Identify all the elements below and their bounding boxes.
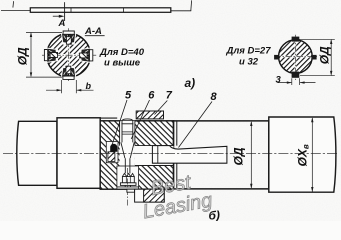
svg-text:Для D=40: Для D=40: [99, 47, 145, 58]
wire: white axis channels: [46, 54, 92, 56]
right shaft segment 2: [269, 117, 336, 192]
dimension D-left of section: [26, 32, 62, 77]
svg-text:ØД: ØД: [16, 47, 30, 65]
dimension 3 (key width): [278, 78, 316, 85]
wire: section arrow: [53, 15, 62, 17]
node right end tick: [190, 0, 193, 11]
svg-text:Для D=27: Для D=27: [226, 46, 272, 57]
key small S: [292, 72, 300, 78]
wire: bolt centerline: [127, 168, 129, 206]
svg-text:и выше: и выше: [104, 58, 141, 69]
pin key insert (hatched): [108, 152, 115, 162]
dimension D Xb (big end diameter): [311, 118, 313, 192]
svg-text:ØД: ØД: [317, 46, 331, 64]
bottom boss under sleeve: [127, 189, 135, 192]
pin (black section): [110, 144, 117, 152]
svg-text:и 32: и 32: [239, 56, 259, 67]
key W: [44, 47, 58, 62]
bolt 6 (vertical): [120, 119, 135, 173]
svg-text:8: 8: [211, 91, 218, 103]
left shaft main segment: [57, 118, 100, 189]
node shaft section circle: [47, 33, 91, 77]
dimension D right circle: [299, 39, 335, 75]
node small shaft section circle: [279, 40, 313, 74]
wire: bar divisions: [71, 8, 124, 13]
svg-text:ØД: ØД: [232, 147, 246, 165]
wire: centerlines of circle: [42, 54, 98, 56]
nut pocket (white): [117, 166, 139, 189]
svg-text:6: 6: [148, 90, 155, 102]
coupling sleeve (hatched): [100, 121, 173, 189]
node left end tick: [12, 1, 15, 7]
svg-text:5: 5: [125, 90, 132, 102]
wire: seg2 top edge overshoot into sleeve: [100, 117, 117, 119]
wire: centerline of top bar: [1, 10, 191, 12]
svg-text:А: А: [58, 18, 66, 29]
svg-text:7: 7: [166, 90, 173, 102]
key 8 (gib wedge key): [152, 146, 227, 164]
cap 7 on sleeve: [136, 111, 163, 119]
wedge bar outline: [30, 8, 171, 13]
key S: [61, 66, 76, 80]
wire: centerlines small circle: [275, 56, 319, 58]
svg-text:b: b: [86, 81, 92, 91]
key E: [79, 48, 93, 63]
right shaft segment 1: [174, 121, 269, 189]
svg-text:а): а): [185, 76, 196, 90]
svg-text:А-А: А-А: [84, 26, 102, 37]
key slot (white): [135, 146, 174, 166]
key small N: [292, 37, 300, 42]
dimension b under section: [46, 80, 94, 93]
nut + spring washer of bolt: [122, 173, 134, 176]
key N (top tangential key pair): [61, 31, 76, 45]
wire: right shaft end face line: [176, 121, 178, 189]
node section line A: [64, 2, 66, 21]
dimension D (right shaft diameter): [250, 122, 252, 188]
wire: shaft butt line in key: [157, 146, 159, 164]
watermark Best Leasing: [137, 168, 214, 223]
key small W: [274, 55, 278, 60]
pin pocket (white): [106, 142, 118, 163]
key small E: [313, 55, 317, 60]
svg-text:3: 3: [276, 75, 282, 86]
wire: main shaft axis: [3, 153, 339, 155]
bolt hole column (white): [120, 121, 135, 166]
left shaft end segment: [17, 121, 57, 185]
